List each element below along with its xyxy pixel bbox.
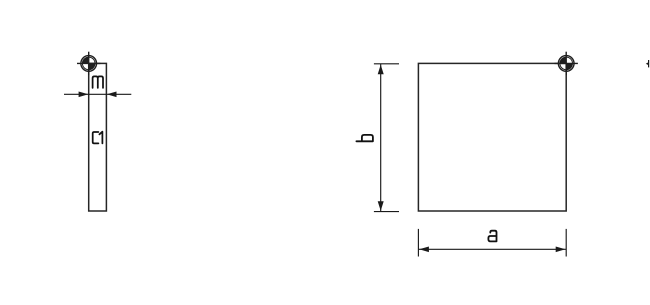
dimension m line — [64, 93, 131, 95]
dimension b line — [380, 64, 382, 211]
square plate outline (right view) — [418, 63, 566, 211]
dimension a line — [419, 248, 566, 250]
dimension b extension line bottom — [374, 211, 399, 213]
dimension a extension line left — [417, 229, 419, 257]
centroid symbol at C1 top-left corner — [77, 52, 100, 75]
label C1 — [93, 132, 103, 144]
dimension m arrowheads — [79, 92, 89, 98]
centroid symbol at square top-right corner — [555, 52, 578, 75]
cut-off dimension arrow at right edge — [646, 60, 649, 67]
capacitor C1 body outline (left view) — [89, 63, 107, 211]
dimension a extension line right — [565, 229, 567, 257]
label b (rotated) — [356, 135, 373, 141]
label a — [488, 231, 496, 242]
dimension b extension line top — [374, 63, 399, 65]
label m — [93, 76, 103, 88]
dimension a arrowheads — [419, 247, 429, 253]
dimension b arrowheads — [378, 65, 384, 75]
